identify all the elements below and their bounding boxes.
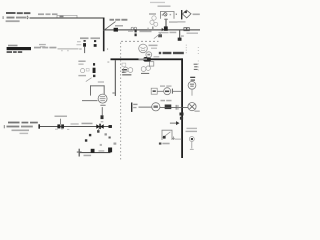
sequence label row3 <box>12 130 30 132</box>
relay bar <box>131 103 132 112</box>
side note two tiny rows <box>39 44 46 45</box>
union fitting boxes on bus <box>184 28 189 31</box>
solenoid valve B stack <box>94 40 96 42</box>
darker dash pair <box>190 77 195 78</box>
faint top caption <box>150 2 165 3</box>
right gauge box <box>149 62 153 66</box>
actuator stem <box>101 107 104 115</box>
wire end tick dark <box>38 124 40 128</box>
right gauge baseline <box>141 73 149 74</box>
faint label right <box>98 81 104 82</box>
wire air bus <box>117 29 200 30</box>
pipe bridge right leg <box>103 85 106 94</box>
stub side tick <box>112 93 114 94</box>
label line2 connector bracket <box>3 16 27 19</box>
pipe bridge top <box>90 84 105 87</box>
label line3 <box>6 20 20 22</box>
solenoid chain blob1 <box>93 63 95 66</box>
damper link tick <box>172 138 174 139</box>
pilot burner circle lower <box>146 52 152 58</box>
thermostat stem <box>190 142 193 149</box>
lower valve V3 bowtie <box>57 124 60 128</box>
label TO GAS VALVE dark <box>159 52 184 54</box>
right margin dots <box>198 47 199 70</box>
mid row wire left <box>157 90 164 93</box>
wire motor to riser <box>160 106 188 109</box>
valve A side mark <box>79 48 82 49</box>
vent caption <box>84 155 92 157</box>
stem valve blob <box>101 115 104 119</box>
label below regulator <box>115 25 123 27</box>
faint top underline <box>158 6 171 7</box>
mid row gauge center <box>165 91 169 93</box>
wire end blob <box>109 125 112 128</box>
inner dashed column <box>185 45 188 54</box>
vent cross symbol <box>79 149 80 157</box>
faint label under check valve <box>178 21 186 23</box>
diagonal leader <box>86 78 92 82</box>
label above regulator <box>110 19 115 21</box>
thermostat circle <box>189 137 194 142</box>
mid row gauge circle <box>164 88 171 95</box>
scattered dot f <box>100 144 102 146</box>
ADJUSTMENTS sub row <box>7 51 23 53</box>
caution text row <box>34 47 41 49</box>
riser valve blobs <box>180 113 184 116</box>
cross ticks <box>175 105 178 110</box>
flow arrow into riser <box>170 122 176 125</box>
pressure gauge right circle <box>188 81 196 89</box>
gas bus heavy horizontal <box>111 58 183 60</box>
wire vertical drop from pipe <box>103 18 105 52</box>
inline label box on pipe <box>57 15 77 17</box>
pilot wire lower <box>40 125 112 128</box>
pilot gauge cluster faint circles <box>150 16 158 26</box>
caption above mid row <box>160 85 165 86</box>
coupling blobs <box>165 105 172 110</box>
battery dashes right <box>194 64 198 70</box>
label right of check valve <box>193 14 200 16</box>
dashed enclosure left edge <box>119 43 122 160</box>
valve labels row above A and B <box>80 37 89 39</box>
gauge pair baseline <box>122 74 131 75</box>
drip leg trap blob <box>178 38 182 41</box>
tick left of bus <box>107 62 109 63</box>
label above motor <box>161 100 166 102</box>
damper box with diagonal <box>162 130 172 140</box>
sequence label row4 <box>20 133 29 134</box>
label under bus left <box>170 32 177 34</box>
solenoid coil symbol inside B1 <box>164 13 167 16</box>
faint label right of fuse <box>154 56 160 57</box>
pilot gauge lead <box>152 27 153 30</box>
wire short run to regulator <box>103 29 115 30</box>
motor circle M2 <box>188 103 196 111</box>
faint dot label <box>181 35 184 37</box>
vertical component small blobs <box>135 30 137 33</box>
damper dark dot <box>163 136 166 139</box>
faint box above terminal <box>122 63 126 66</box>
valve A stem <box>83 47 86 53</box>
label under union <box>187 33 199 34</box>
vent blob a <box>91 149 95 153</box>
main valve V4 bowtie dark <box>96 124 100 129</box>
solenoid box B1 <box>160 12 174 19</box>
gauge stem <box>191 89 194 95</box>
sequence label row2 with brackets <box>4 125 5 128</box>
thermostat end tick <box>190 148 194 151</box>
regulator valve V1 body <box>114 28 118 32</box>
wire relay to motor <box>139 106 152 109</box>
pilot line label column <box>78 61 85 63</box>
diaphragm actuator circle <box>98 94 107 103</box>
V3 stem <box>59 119 62 125</box>
dashed enclosure top edge <box>121 40 159 43</box>
connector close bracket <box>27 16 28 19</box>
check valve bar <box>181 10 182 19</box>
faint caption mid <box>71 123 79 124</box>
scattered mark flag <box>97 130 99 133</box>
bus drop stub <box>115 60 116 96</box>
faint mark below stem <box>101 121 104 122</box>
actuator stripes <box>100 96 106 101</box>
scattered dot d <box>109 137 111 139</box>
burner label small <box>128 30 133 32</box>
scattered dot a <box>89 134 91 136</box>
regulator adjustment arrow diagonal <box>104 22 116 31</box>
label MAIN AIR SUPPLY line1 <box>6 12 30 14</box>
node dot right of B1 <box>176 14 177 16</box>
main riser heavy vertical <box>181 58 183 158</box>
solenoid chain blob2 <box>93 68 96 73</box>
label right of M2 <box>195 111 200 112</box>
valve V2 body on bus <box>164 26 168 30</box>
relay contact marks <box>133 104 137 105</box>
vent blob b <box>108 148 112 153</box>
vent line lower <box>79 152 111 153</box>
thin leader line <box>58 48 79 51</box>
label AIR FILTER <box>169 21 178 23</box>
drip leg stub on bus <box>179 30 180 38</box>
actuator lower marks <box>100 105 105 106</box>
small circle mark <box>81 69 85 73</box>
pilot gauge label <box>149 13 156 15</box>
faint marks right <box>77 41 81 42</box>
label small under <box>151 48 157 49</box>
mid row wire right <box>173 90 181 93</box>
motor circle M1 <box>152 103 160 111</box>
scattered dot c <box>105 133 107 135</box>
caption left of bowtie <box>82 123 93 125</box>
node tick <box>147 28 150 32</box>
pilot burner circle upper <box>139 44 148 53</box>
label under valve V2 <box>159 32 169 33</box>
caption above gauges <box>139 59 148 60</box>
sequence label row1 <box>8 122 38 124</box>
scattered dot b <box>85 139 87 141</box>
pressure switch center <box>153 90 156 92</box>
terminal dashes near bus <box>122 69 127 70</box>
damper wire to riser <box>175 138 182 141</box>
wire B1 stem to bus <box>166 19 167 30</box>
solenoid valve A stack <box>84 40 86 42</box>
wire main air pipe horizontal <box>30 18 105 19</box>
damper label <box>159 143 162 145</box>
wire to actuator <box>82 99 98 102</box>
label above main pipe <box>38 13 44 15</box>
fuse body on gas bus <box>143 57 151 62</box>
pipe bridge left leg <box>89 85 92 95</box>
faint caption row <box>140 31 152 33</box>
gauge pair small circles <box>131 27 133 29</box>
dark mark C <box>158 34 162 37</box>
faint dots row mid page <box>55 129 69 131</box>
leader ticks <box>61 50 64 51</box>
burner gauge pair left circles <box>123 67 133 72</box>
faint square <box>86 69 89 72</box>
pressure switch box on mid row <box>151 88 157 94</box>
ADJUSTMENTS header faint row <box>8 45 18 47</box>
diagonal lead <box>154 33 161 39</box>
label right of pilot circle <box>149 45 158 47</box>
node dot <box>107 49 108 50</box>
check valve dot <box>185 11 187 13</box>
ADJUSTMENTS dark bar <box>7 47 31 50</box>
burner gauge pair right circles <box>141 66 150 71</box>
check valve diamond <box>183 10 192 18</box>
vent dash mid <box>99 150 105 153</box>
V3 caption <box>55 116 68 118</box>
scattered mark e <box>114 143 117 145</box>
thermostat caption rows <box>187 128 198 129</box>
solenoid chain blob3 <box>93 75 95 77</box>
mid row tick <box>172 89 173 94</box>
